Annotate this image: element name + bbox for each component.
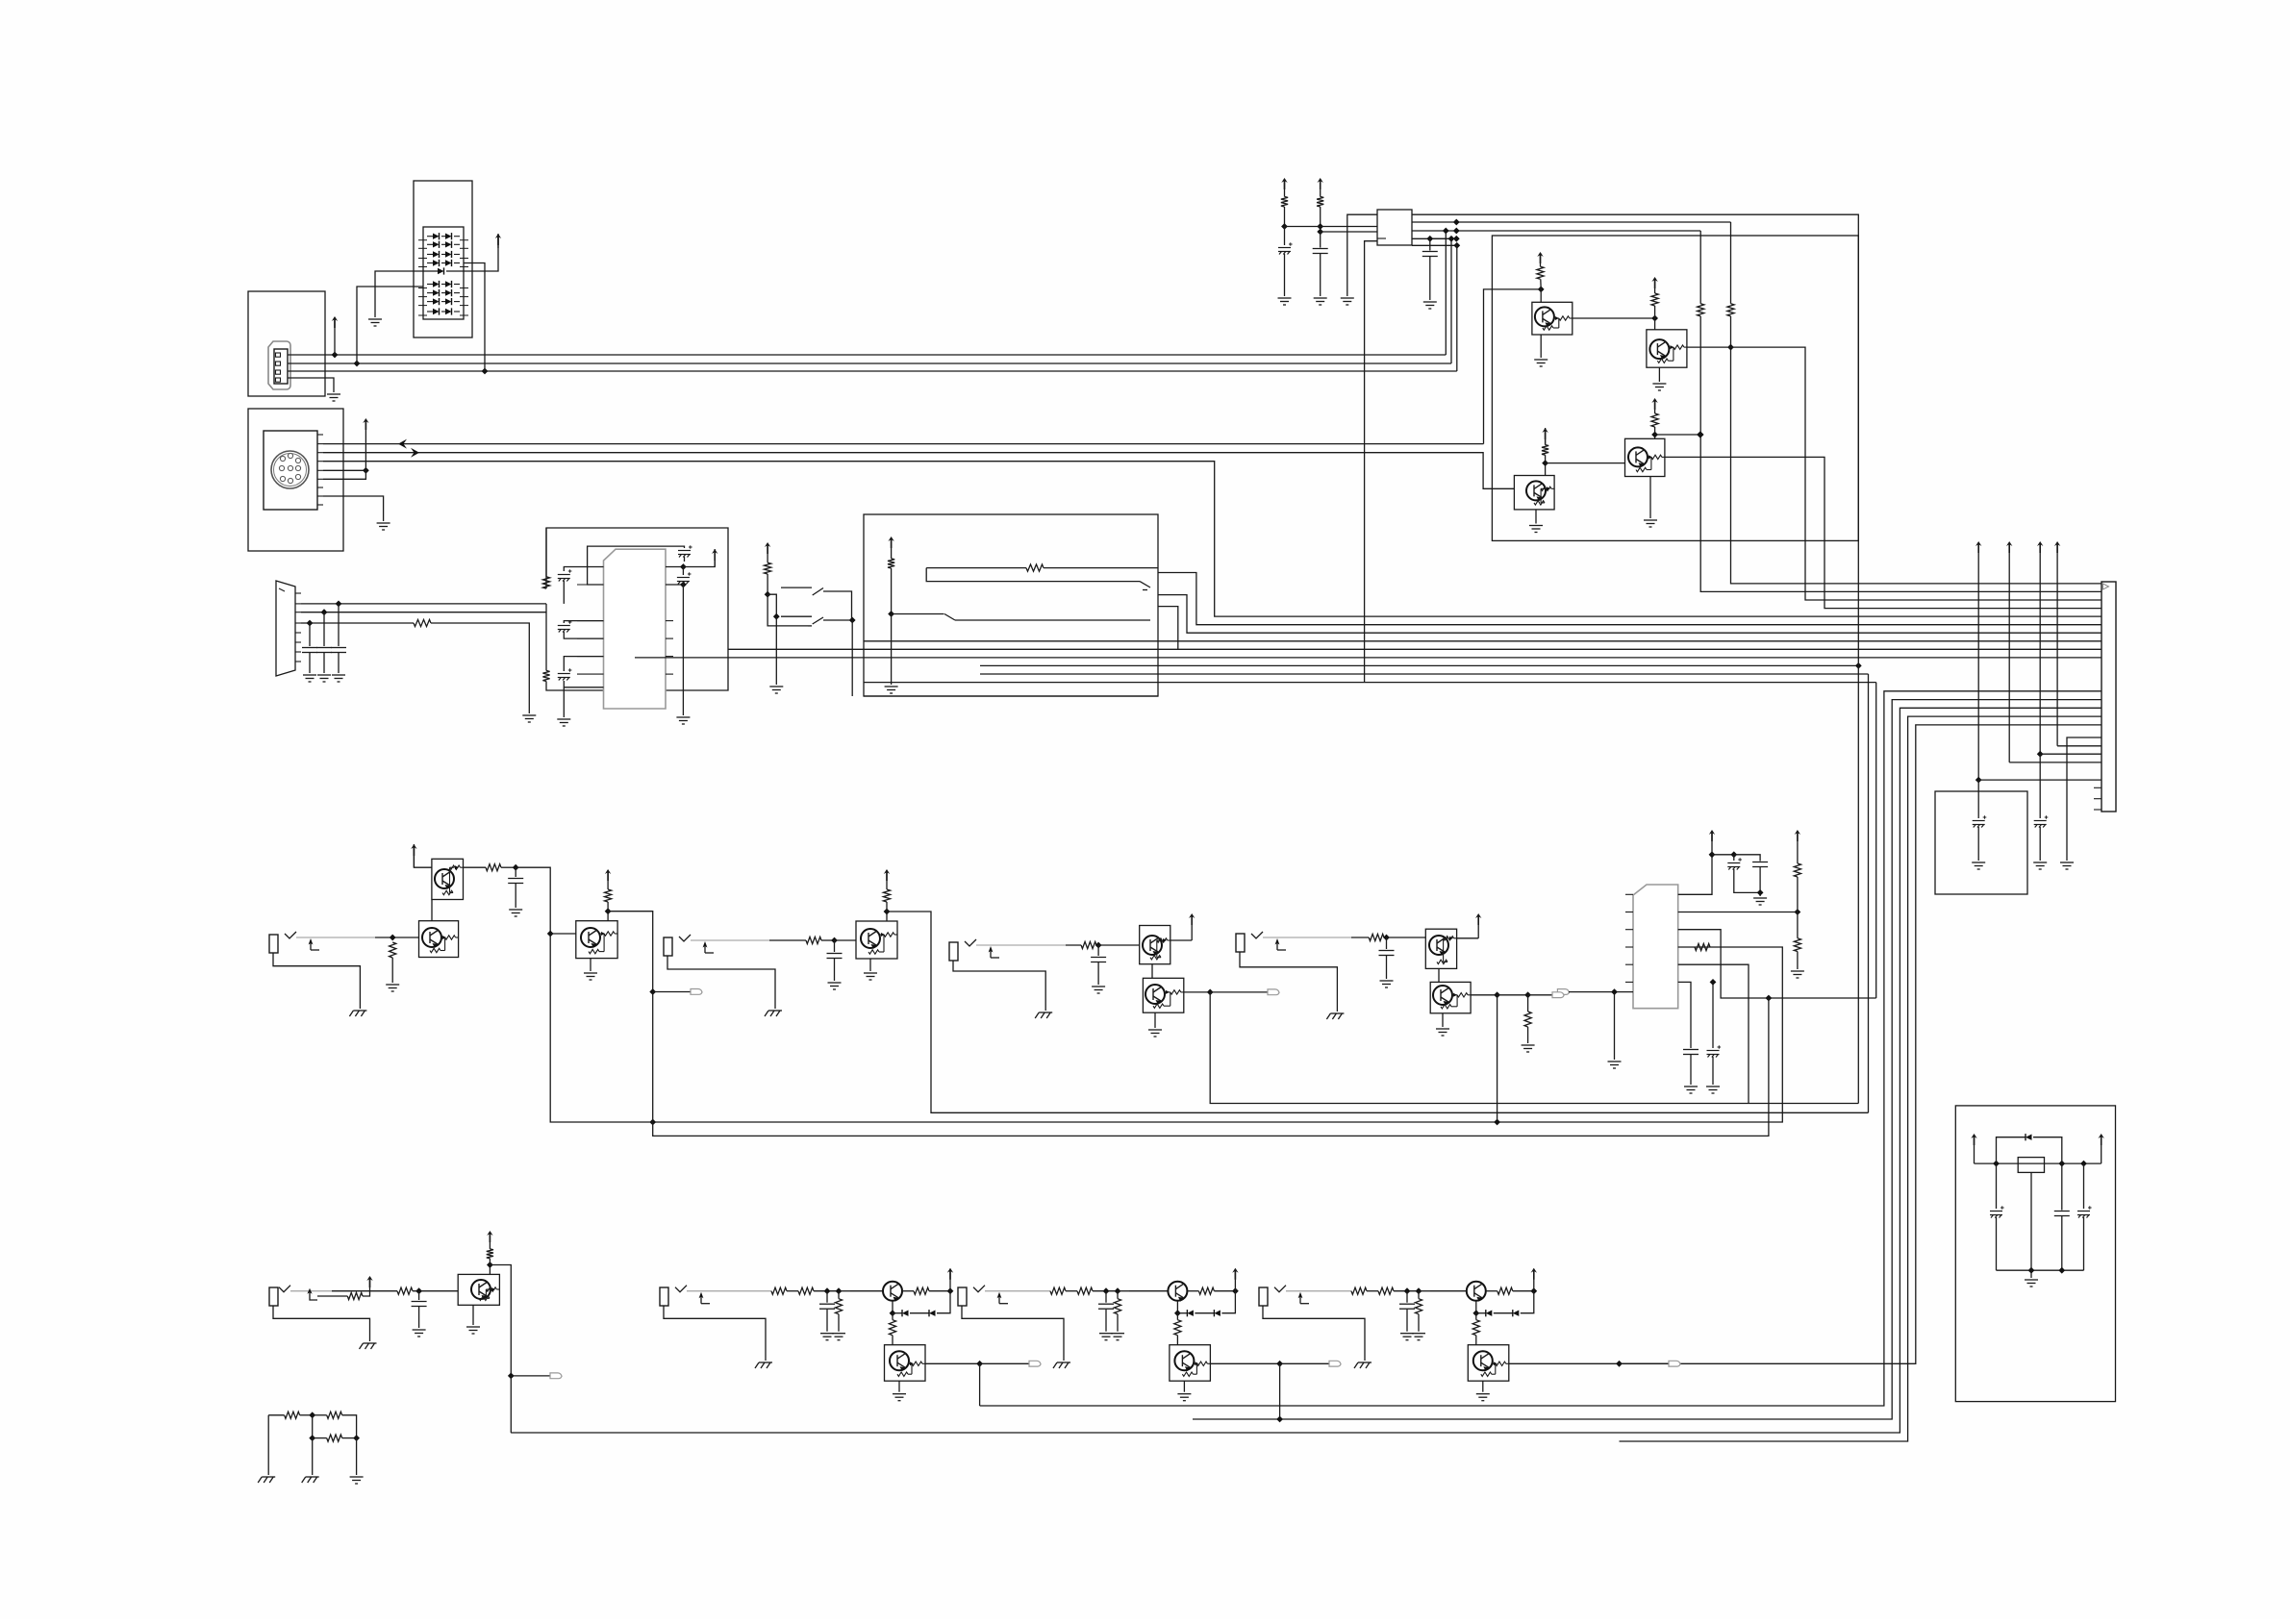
wire CH6w bbox=[787, 1290, 798, 1292]
wire t1c bbox=[1284, 227, 1286, 246]
transistor T16 bbox=[861, 929, 880, 948]
wire ic2-g bbox=[1614, 992, 1616, 1060]
junction J63 bbox=[947, 1287, 954, 1294]
diode D34 bbox=[1214, 1311, 1220, 1316]
ground G28 bbox=[386, 985, 399, 991]
transistor Q12b bbox=[1170, 1345, 1211, 1382]
wire ds2 bbox=[301, 612, 546, 613]
IC box diode-array-outer bbox=[414, 181, 472, 337]
wire rail1b bbox=[1700, 316, 2101, 592]
wire usb1-riser bbox=[1445, 231, 1447, 355]
wire nest4 bbox=[1620, 716, 2102, 1441]
wire Q13dw2 bbox=[1476, 1312, 1486, 1314]
junction J11 bbox=[773, 613, 780, 620]
transistor Q10 bbox=[458, 1274, 499, 1305]
wire rn4 bbox=[342, 1415, 357, 1438]
wire q8fw bbox=[1210, 991, 1268, 993]
wire din5 bbox=[323, 470, 365, 479]
junction J74 bbox=[1530, 1287, 1537, 1294]
IC U-psu bbox=[2018, 1158, 2044, 1173]
wire q10cw bbox=[489, 1259, 491, 1265]
diode D6 bbox=[445, 241, 452, 247]
wire din4 bbox=[323, 469, 365, 471]
junction J5 bbox=[336, 601, 342, 608]
junction J53 bbox=[1524, 991, 1531, 998]
wire swr1 bbox=[926, 567, 1026, 569]
wire ch2-flagw bbox=[653, 991, 691, 993]
wire ic2-out bbox=[1569, 991, 1633, 993]
wire Q12dw bbox=[1176, 1301, 1178, 1313]
wire ch8w bbox=[1430, 1290, 1466, 1292]
ground G22 bbox=[2060, 862, 2074, 869]
wire t1cg bbox=[1284, 254, 1286, 296]
wire ic1-p1 bbox=[564, 567, 603, 572]
capacitor C-ic1c bbox=[558, 668, 572, 680]
junction J70 bbox=[1276, 1361, 1283, 1367]
transistor T6 bbox=[1526, 481, 1546, 500]
wire CH8slv bbox=[1263, 1306, 1365, 1361]
wire vc2 bbox=[2039, 754, 2041, 818]
wire t3 bbox=[1347, 214, 1377, 296]
junction J29 bbox=[1542, 460, 1548, 466]
junction J54 bbox=[1494, 1119, 1500, 1126]
wire ch6-desc bbox=[979, 1363, 981, 1406]
transistor T32 bbox=[1174, 1351, 1194, 1370]
wire q6e bbox=[590, 959, 591, 971]
capacitor C20 bbox=[1091, 958, 1106, 962]
wire Q13rv2 bbox=[1475, 1336, 1477, 1345]
junction J25 bbox=[1698, 432, 1704, 438]
resistor R-q2 bbox=[1651, 293, 1658, 306]
wire usb3 bbox=[288, 370, 1457, 372]
wire swr2 bbox=[926, 568, 1140, 582]
wire usb2 bbox=[288, 362, 1451, 364]
diode D18 bbox=[445, 289, 452, 295]
wire ic1-r1 bbox=[666, 566, 683, 568]
connector out out-ch4 bbox=[1552, 992, 1564, 998]
switch SW4 bbox=[1140, 582, 1150, 587]
junction J23 bbox=[1443, 228, 1449, 235]
resistor R-j2 bbox=[806, 937, 821, 943]
wire bus-677 bbox=[635, 657, 2101, 659]
pin P10 bbox=[2094, 798, 2101, 800]
capacitor C-psu3 bbox=[2077, 1206, 2092, 1217]
junction J32 bbox=[1975, 777, 1982, 784]
wire j2slv bbox=[667, 956, 775, 1009]
capacitor C-psu1 bbox=[1990, 1206, 2004, 1217]
junction J14 bbox=[1855, 662, 1862, 669]
diode D24 bbox=[445, 309, 452, 314]
diode D8 bbox=[433, 251, 440, 257]
ground G11 bbox=[885, 687, 898, 693]
ground G8 bbox=[557, 719, 570, 726]
diode DA8 bbox=[427, 311, 433, 312]
wire q3-q4 bbox=[1546, 462, 1625, 464]
wire ch7fw bbox=[1280, 1362, 1329, 1364]
capacitor C-ic2b bbox=[1752, 862, 1768, 867]
ground G52 bbox=[1099, 1334, 1113, 1340]
ground G5 bbox=[303, 675, 316, 682]
wire sw4o bbox=[955, 619, 1150, 621]
wire rn3 bbox=[313, 1414, 327, 1416]
wire reg-d1 bbox=[1997, 1137, 2026, 1163]
wire q3-e bbox=[1535, 510, 1537, 524]
wire Q12rv2 bbox=[1176, 1336, 1178, 1345]
transistor Q3 bbox=[1514, 476, 1554, 510]
transistor T26 bbox=[471, 1280, 491, 1299]
ground G47 bbox=[350, 1477, 364, 1484]
wire rn8 bbox=[267, 1415, 269, 1475]
power arrow P4 bbox=[495, 234, 501, 245]
resistor R-j4 bbox=[1369, 934, 1384, 940]
capacitor C-p2 bbox=[2034, 815, 2049, 827]
ground G30 bbox=[349, 1011, 366, 1016]
junction J44 bbox=[547, 931, 554, 937]
box cap-box bbox=[1935, 791, 2027, 894]
wire midi-3 bbox=[323, 462, 2101, 616]
ground G1 bbox=[327, 394, 340, 401]
resistor R-Q13 bbox=[1497, 1287, 1513, 1294]
capacitor C-ic2d bbox=[1707, 1045, 1722, 1057]
ground G18 bbox=[1529, 526, 1543, 533]
transistor T8 bbox=[1628, 447, 1648, 466]
power arrow P58 bbox=[1971, 1134, 1976, 1145]
potentiometer CH8-pot bbox=[1274, 1286, 1286, 1292]
junction J17 bbox=[1317, 229, 1323, 236]
capacitor C-t1 bbox=[1278, 242, 1293, 254]
connector jack CH6-jack bbox=[660, 1287, 668, 1306]
transistor Q5a bbox=[432, 859, 464, 899]
switch SW3 bbox=[944, 614, 955, 621]
diode DA7 bbox=[427, 301, 433, 303]
wire CH7w2 bbox=[1093, 1290, 1118, 1292]
power arrow P26 bbox=[1975, 541, 1981, 553]
wire ic2-r1 bbox=[1678, 855, 1712, 895]
wire d2w bbox=[1797, 912, 1799, 938]
wire d2g bbox=[1797, 952, 1799, 970]
potentiometer CH1-pot bbox=[285, 932, 296, 938]
wire ic2-r4 bbox=[653, 947, 1783, 1122]
power arrow P56 bbox=[1531, 1268, 1537, 1280]
wire midi-out bbox=[323, 443, 1484, 445]
wire Q13dw3 bbox=[1494, 1312, 1513, 1314]
diode D26 bbox=[438, 268, 444, 274]
capacitor C-ic1d bbox=[678, 545, 692, 557]
wire j4cg bbox=[1386, 956, 1388, 979]
wire reg-d2 bbox=[2033, 1137, 2062, 1163]
wire ch5w bbox=[332, 1290, 397, 1292]
junction J31 bbox=[1697, 432, 1703, 438]
power arrow P46 bbox=[1475, 913, 1481, 925]
resistor R-j2c bbox=[883, 889, 890, 902]
resistor R-j3 bbox=[1081, 941, 1096, 948]
pin P17 bbox=[1625, 981, 1633, 983]
wire CH8cw bbox=[1406, 1291, 1408, 1303]
wire j4cw bbox=[1386, 937, 1388, 949]
wire CH6cg bbox=[826, 1310, 828, 1332]
wire ch3-desc bbox=[1210, 992, 1858, 1104]
wire sw-gnd1 bbox=[775, 616, 777, 685]
transistor Q1 bbox=[1532, 302, 1573, 335]
connector jack CH2-jack bbox=[664, 937, 672, 956]
diode D15 bbox=[445, 281, 452, 287]
wire bus-708 bbox=[864, 682, 1876, 684]
wire ic1-vcc bbox=[683, 549, 715, 567]
wire q9w bbox=[1457, 937, 1479, 939]
power arrow P34 bbox=[1709, 830, 1715, 841]
ground G29 bbox=[509, 910, 522, 916]
connector jack CH5-jack bbox=[269, 1287, 278, 1306]
wire usb-gnd bbox=[288, 378, 334, 392]
resistor R-n3 bbox=[327, 1435, 342, 1441]
diode D40 bbox=[2026, 1135, 2032, 1140]
wire Q13w1 bbox=[1486, 1290, 1497, 1292]
ground G12 bbox=[1278, 298, 1292, 305]
IC diode-array bbox=[423, 227, 464, 319]
junction J16 bbox=[1317, 223, 1323, 230]
wire sw3w bbox=[891, 568, 893, 614]
wire Q11rv1 bbox=[892, 1313, 893, 1320]
junction J39 bbox=[1766, 995, 1773, 1002]
capacitor C-psu2 bbox=[2054, 1212, 2070, 1216]
wire ch6o bbox=[925, 1362, 980, 1364]
resistor R-d2 bbox=[1794, 938, 1800, 952]
junction J19 bbox=[1453, 228, 1460, 235]
junction J55 bbox=[415, 1287, 422, 1294]
wire ch4-desc bbox=[1497, 995, 1498, 1122]
wire sw1o bbox=[823, 591, 852, 620]
wire j2cg bbox=[834, 959, 836, 981]
diode D36 bbox=[1486, 1311, 1493, 1316]
wire tc2d bbox=[1759, 867, 1761, 896]
connector out out-ch3 bbox=[1268, 989, 1279, 995]
resistor R-Q12b bbox=[1174, 1320, 1181, 1336]
wire ds1 bbox=[301, 603, 546, 605]
wire vc2g bbox=[2039, 827, 2041, 861]
junction J13 bbox=[888, 611, 894, 617]
diode D30 bbox=[929, 1311, 936, 1316]
capacitor C2 bbox=[316, 648, 332, 653]
ground G21 bbox=[2033, 862, 2047, 869]
junction J15 bbox=[1281, 223, 1288, 230]
ground G39 bbox=[1326, 1013, 1344, 1019]
ground G20 bbox=[1972, 862, 1985, 869]
capacitor C18 bbox=[508, 879, 523, 884]
connector jack CH4-jack bbox=[1236, 934, 1245, 952]
wire pin-776 bbox=[2057, 745, 2101, 747]
potentiometer CH3-pot bbox=[965, 939, 976, 946]
resistor R-n2 bbox=[327, 1412, 342, 1418]
wire reg-p5 bbox=[1412, 244, 1457, 246]
wire q4-h bbox=[1655, 434, 1700, 436]
junction J2 bbox=[354, 361, 361, 367]
junction J10 bbox=[765, 591, 771, 598]
wire ch1-slv bbox=[273, 953, 360, 1009]
power arrow P16 bbox=[1318, 178, 1323, 189]
ground G48 bbox=[820, 1334, 834, 1340]
wire ch1-rg bbox=[391, 958, 393, 983]
ground G3 bbox=[377, 523, 390, 530]
resistor R-ic1a bbox=[542, 577, 549, 588]
wire ch5cg bbox=[418, 1307, 420, 1328]
wire q2-c bbox=[1654, 306, 1656, 330]
wire q9e bbox=[1442, 1013, 1444, 1027]
transistor T22 bbox=[1429, 936, 1448, 955]
diode D5 bbox=[433, 241, 440, 247]
wire reg-mid bbox=[2030, 1172, 2032, 1270]
capacitor C-p1 bbox=[1973, 815, 1987, 827]
wire bus-top3 bbox=[1412, 230, 1700, 232]
junction J75 bbox=[1472, 1310, 1479, 1316]
power arrow P6 bbox=[363, 418, 368, 430]
pin P11 bbox=[2094, 809, 2101, 811]
wire j2w bbox=[769, 939, 806, 941]
resistor R-CH62 bbox=[798, 1287, 814, 1294]
wire bus-top1 bbox=[1412, 214, 1858, 665]
diode DA5 bbox=[427, 284, 433, 286]
wire reg-grail bbox=[1997, 1269, 2084, 1271]
wire ch8o bbox=[1509, 1362, 1620, 1364]
junction J78 bbox=[2058, 1161, 2065, 1167]
wire t2w bbox=[1320, 207, 1321, 232]
transistor Q9a bbox=[1425, 929, 1456, 968]
wire Q11dw4 bbox=[937, 1291, 950, 1313]
wire ic1-r2 bbox=[666, 584, 683, 586]
wire ic1-ct bbox=[684, 557, 686, 562]
wire usb3-riser bbox=[1456, 245, 1458, 371]
resistor Rds bbox=[414, 619, 431, 626]
ground G26 bbox=[1684, 1087, 1698, 1093]
junction J43 bbox=[513, 864, 519, 871]
pin P14 bbox=[1625, 929, 1633, 931]
box SW-box bbox=[864, 514, 1158, 696]
wire Q11dw3 bbox=[910, 1312, 929, 1314]
wire d1w bbox=[1797, 877, 1799, 912]
capacitor C1 bbox=[302, 648, 317, 653]
ground G14 bbox=[1341, 298, 1354, 305]
resistor R-ic2h bbox=[1695, 943, 1710, 950]
junction J12 bbox=[849, 617, 856, 624]
wire nest2 bbox=[1193, 700, 2101, 1419]
wire reg-p4 bbox=[1412, 237, 1456, 239]
wire q1-out bbox=[1573, 317, 1655, 319]
power arrow P40 bbox=[605, 869, 611, 881]
wire reg-gw bbox=[2030, 1270, 2032, 1278]
wire ch6fw bbox=[980, 1362, 1029, 1364]
junction J69 bbox=[1174, 1310, 1181, 1316]
wire q9o bbox=[1471, 994, 1497, 996]
wire CH7cw bbox=[1105, 1291, 1107, 1303]
wire CH6slv bbox=[664, 1306, 766, 1361]
wire nest3 bbox=[511, 708, 2101, 1433]
capacitor C-ic2a bbox=[1727, 858, 1742, 869]
capacitor C-ic2c bbox=[1683, 1050, 1699, 1055]
wire reg-l bbox=[1365, 241, 1377, 683]
wire ic1-p1b bbox=[563, 581, 565, 604]
wire rn5 bbox=[312, 1415, 314, 1438]
ground G24 bbox=[1753, 898, 1767, 905]
junction J50 bbox=[1207, 989, 1214, 996]
wire sw1c bbox=[768, 594, 808, 626]
pin P7 bbox=[666, 656, 673, 658]
pin P12 bbox=[1625, 893, 1633, 895]
resistor R-ch5c bbox=[487, 1249, 493, 1259]
wire ic2-c1w bbox=[1678, 982, 1691, 1048]
wire rn9 bbox=[312, 1438, 314, 1475]
diode D14 bbox=[433, 281, 440, 287]
wire rch4g bbox=[1527, 1027, 1529, 1043]
ground G35 bbox=[1092, 987, 1105, 993]
wire Q12w1 bbox=[1187, 1290, 1198, 1292]
resistor R-Q11b bbox=[889, 1320, 895, 1336]
transistor Q4 bbox=[1625, 438, 1665, 476]
ground G54 bbox=[1053, 1362, 1070, 1368]
connector J-right bbox=[2101, 582, 2116, 812]
ground G16 bbox=[1534, 360, 1548, 366]
power arrow P48 bbox=[366, 1276, 372, 1287]
wire t2cg bbox=[1320, 254, 1321, 296]
wire pin-811 bbox=[1978, 779, 2101, 781]
junction J56 bbox=[487, 1262, 493, 1268]
wire CH7cg bbox=[1105, 1310, 1107, 1332]
transistor Q7 bbox=[856, 921, 897, 959]
connector jack CH3-jack bbox=[949, 942, 958, 961]
resistor R-t1 bbox=[1281, 197, 1288, 208]
connector box USB-host bbox=[248, 291, 325, 396]
wire ch1-ow bbox=[464, 866, 487, 868]
wire tc2c bbox=[1734, 855, 1760, 862]
wire midi-in bbox=[323, 453, 1514, 489]
junction J59 bbox=[309, 1435, 315, 1441]
wire q3-cb bbox=[1545, 455, 1547, 475]
resistor R-sw2 bbox=[888, 559, 894, 568]
junction J81 bbox=[2058, 1267, 2065, 1274]
junction J40 bbox=[649, 1119, 656, 1126]
junction J33 bbox=[2037, 751, 2044, 758]
IC IC2 bbox=[1633, 885, 1678, 1009]
ground G34 bbox=[864, 973, 877, 980]
pin P13 bbox=[1625, 912, 1633, 913]
connector out out-ch2 bbox=[691, 989, 702, 995]
wire rn2 bbox=[300, 1414, 313, 1416]
connector out C2 bbox=[1557, 989, 1569, 995]
ground G42 bbox=[413, 1330, 426, 1337]
ground G45 bbox=[258, 1477, 275, 1483]
wire da-out bbox=[446, 234, 498, 271]
wire reg-rail bbox=[1975, 1162, 2101, 1164]
junction J38 bbox=[1795, 909, 1801, 915]
junction J48 bbox=[884, 909, 891, 915]
ground G31 bbox=[584, 973, 597, 980]
wire j3cw bbox=[1097, 945, 1099, 956]
wire ch1-cw bbox=[515, 867, 516, 877]
wire bus-674a bbox=[1158, 607, 1178, 650]
wire W20 bbox=[309, 623, 311, 646]
wire bus-667 bbox=[864, 640, 2101, 642]
capacitor C23 bbox=[819, 1304, 835, 1309]
power arrow P42 bbox=[884, 869, 890, 881]
wire Q12w2 bbox=[1214, 1290, 1235, 1292]
wire bus-653 bbox=[1158, 573, 2101, 625]
junction J52 bbox=[1494, 991, 1500, 998]
wire q10e bbox=[472, 1305, 474, 1325]
wire Q12rv1 bbox=[1176, 1313, 1178, 1320]
power arrow P28 bbox=[2006, 541, 2012, 553]
wire reg-c2w bbox=[2061, 1163, 2063, 1210]
wire q6cw bbox=[607, 902, 609, 912]
pin P8 bbox=[666, 673, 673, 675]
diode D21 bbox=[445, 298, 452, 304]
